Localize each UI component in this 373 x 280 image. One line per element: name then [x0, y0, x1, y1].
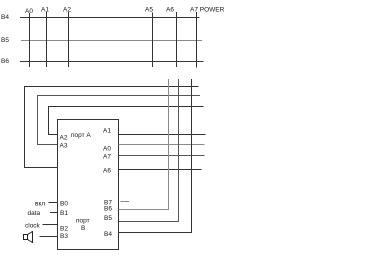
wire bus column A0	[29, 13, 31, 67]
wire bus column A2	[68, 12, 70, 67]
wire hook to pin A2 (inner loop)	[49, 107, 204, 135]
wire pin B6 loop	[119, 79, 169, 210]
wire bus column A1	[46, 12, 48, 67]
wire stub pin B2	[43, 224, 58, 226]
svg-text:вкл: вкл	[35, 201, 45, 208]
svg-text:B4: B4	[1, 14, 9, 21]
wire bus row B4	[20, 17, 200, 19]
svg-text:B2: B2	[60, 226, 68, 233]
wire stub pin B1	[50, 212, 58, 214]
svg-text:A0: A0	[103, 146, 111, 153]
svg-text:B3: B3	[60, 233, 68, 240]
wire pin A0	[119, 144, 205, 146]
svg-text:data: data	[28, 210, 41, 217]
svg-text:B6: B6	[104, 206, 112, 213]
svg-text:B5: B5	[104, 215, 112, 222]
svg-text:B: B	[81, 225, 85, 232]
wire pin A6	[119, 169, 202, 171]
svg-text:A2: A2	[63, 7, 71, 14]
wire stub pin B7	[121, 201, 130, 203]
svg-text:A3: A3	[60, 143, 68, 150]
wire stub pin B3	[40, 236, 58, 238]
wire hook to pin A3 (middle loop)	[38, 96, 201, 145]
svg-text:A6: A6	[103, 168, 111, 175]
wire bus row B5	[21, 40, 202, 42]
svg-text:порт A: порт A	[71, 132, 91, 139]
svg-text:порт: порт	[76, 218, 90, 225]
svg-text:A6: A6	[166, 7, 174, 14]
wire bus column A7	[196, 12, 198, 68]
wire bus column A5	[152, 13, 154, 68]
svg-text:B5: B5	[1, 37, 9, 44]
svg-text:A1: A1	[103, 128, 111, 135]
svg-text:A2: A2	[60, 135, 68, 142]
wire pin B4 loop	[119, 79, 192, 233]
wire hook to pin A4 (outer loop)	[25, 87, 199, 168]
svg-text:B0: B0	[60, 201, 68, 208]
svg-text:clock: clock	[25, 223, 41, 230]
wire pin A1	[119, 134, 206, 136]
svg-text:B4: B4	[104, 231, 112, 238]
svg-text:B1: B1	[60, 210, 68, 217]
svg-text:B6: B6	[1, 58, 9, 65]
wire pin A7	[119, 155, 205, 157]
wire bus row B6	[20, 61, 204, 63]
svg-text:A7: A7	[103, 154, 111, 161]
wire stub pin B0	[49, 202, 58, 204]
svg-text:A7 POWER: A7 POWER	[190, 7, 225, 14]
svg-text:A1: A1	[41, 7, 49, 14]
I/O port chip U1	[58, 120, 119, 250]
wire bus column A6	[176, 12, 178, 67]
speaker LS1	[24, 232, 33, 243]
svg-text:A5: A5	[145, 7, 153, 14]
wire pin B5 loop	[119, 79, 179, 222]
